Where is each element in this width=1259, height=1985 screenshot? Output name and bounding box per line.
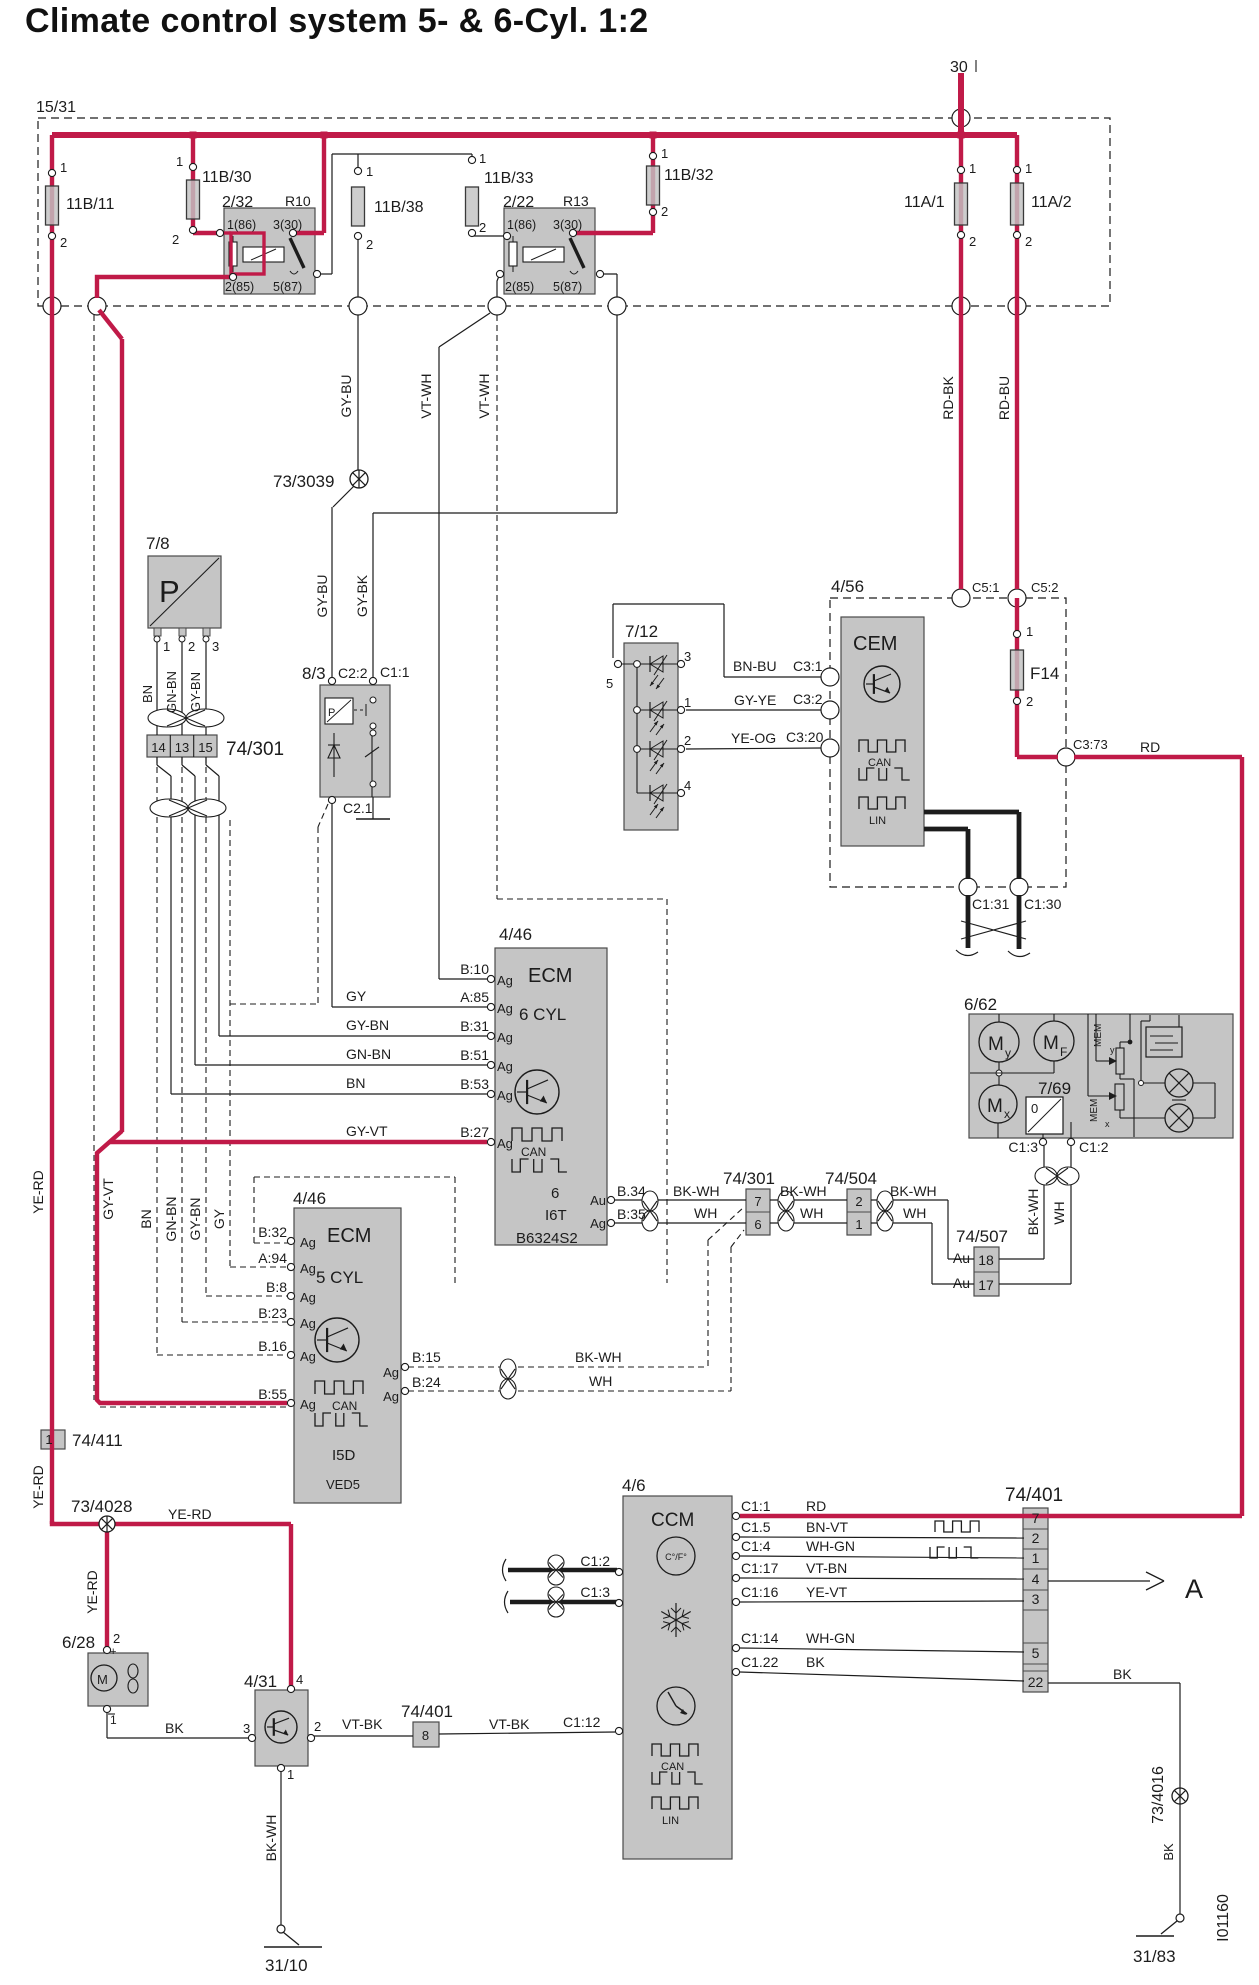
svg-text:6: 6: [551, 1185, 559, 1202]
svg-text:F14: F14: [1030, 664, 1059, 683]
svg-text:BK-WH: BK-WH: [780, 1183, 827, 1199]
svg-text:1: 1: [1026, 624, 1033, 639]
svg-text:15/31: 15/31: [36, 99, 76, 116]
svg-text:5(87): 5(87): [273, 280, 302, 294]
svg-text:1: 1: [479, 151, 486, 166]
svg-text:GN-BN: GN-BN: [163, 1196, 179, 1241]
svg-text:73/4028: 73/4028: [71, 1497, 132, 1516]
svg-text:RD: RD: [1140, 739, 1160, 755]
svg-text:8: 8: [422, 1728, 429, 1743]
svg-text:M: M: [988, 1034, 1004, 1055]
svg-text:YE-VT: YE-VT: [806, 1584, 848, 1600]
svg-text:C1.5: C1.5: [741, 1519, 771, 1535]
svg-text:4: 4: [296, 1672, 303, 1687]
svg-text:GY-BN: GY-BN: [346, 1017, 389, 1033]
svg-text:Ag: Ag: [497, 973, 513, 988]
svg-text:WH-GN: WH-GN: [806, 1630, 855, 1646]
svg-text:WH: WH: [589, 1373, 612, 1389]
svg-text:A: A: [1185, 1574, 1203, 1604]
svg-text:WH: WH: [800, 1205, 823, 1221]
svg-text:M: M: [1043, 1033, 1059, 1054]
svg-text:GY: GY: [211, 1208, 227, 1229]
svg-text:2/32: 2/32: [222, 194, 253, 211]
svg-text:B:23: B:23: [258, 1305, 287, 1321]
svg-text:1: 1: [1025, 161, 1032, 176]
svg-text:CCM: CCM: [651, 1510, 694, 1531]
svg-text:YE-RD: YE-RD: [84, 1570, 100, 1614]
svg-text:Ag: Ag: [497, 1088, 513, 1103]
svg-text:7/69: 7/69: [1038, 1079, 1071, 1098]
svg-text:VT-WH: VT-WH: [476, 373, 492, 418]
svg-text:Ag: Ag: [300, 1261, 316, 1276]
svg-text:M: M: [97, 1672, 108, 1687]
svg-text:C1.22: C1.22: [741, 1654, 779, 1670]
svg-text:GY: GY: [346, 988, 367, 1004]
svg-text:B:31: B:31: [460, 1018, 489, 1034]
svg-text:2: 2: [314, 1719, 321, 1734]
svg-text:BN-BU: BN-BU: [733, 658, 777, 674]
svg-text:7/12: 7/12: [625, 622, 658, 641]
svg-text:CAN: CAN: [521, 1145, 546, 1159]
svg-text:4/31: 4/31: [244, 1672, 277, 1691]
svg-text:VT-BK: VT-BK: [342, 1716, 383, 1732]
svg-text:C1:30: C1:30: [1024, 896, 1062, 912]
svg-text:BN-VT: BN-VT: [806, 1519, 848, 1535]
svg-text:BK: BK: [1161, 1843, 1176, 1861]
svg-text:2: 2: [661, 204, 668, 219]
svg-text:Au: Au: [953, 1275, 970, 1291]
svg-text:2: 2: [188, 639, 195, 654]
svg-text:BN: BN: [140, 685, 155, 703]
svg-text:1: 1: [1032, 1550, 1040, 1566]
svg-text:1: 1: [855, 1217, 862, 1232]
svg-text:CEM: CEM: [853, 633, 897, 655]
svg-text:14: 14: [151, 740, 165, 755]
svg-text:y: y: [1110, 1045, 1115, 1055]
svg-text:0: 0: [1031, 1101, 1038, 1116]
svg-text:1: 1: [661, 146, 668, 161]
svg-text:3(30): 3(30): [273, 218, 302, 232]
svg-text:GY-YE: GY-YE: [734, 692, 776, 708]
svg-text:Ag: Ag: [300, 1290, 316, 1305]
svg-text:Ag: Ag: [497, 1001, 513, 1016]
svg-text:C1:17: C1:17: [741, 1560, 779, 1576]
svg-text:WH-GN: WH-GN: [806, 1538, 855, 1554]
svg-text:5: 5: [606, 676, 613, 691]
svg-text:BK-WH: BK-WH: [890, 1183, 937, 1199]
svg-text:Ag: Ag: [590, 1216, 606, 1231]
svg-text:I6T: I6T: [545, 1207, 567, 1224]
svg-text:11B/32: 11B/32: [664, 167, 714, 184]
svg-text:1: 1: [110, 1713, 117, 1727]
svg-text:B6324S2: B6324S2: [516, 1230, 578, 1247]
svg-text:M: M: [987, 1096, 1003, 1117]
svg-text:Ag: Ag: [300, 1349, 316, 1364]
svg-text:8/3: 8/3: [302, 664, 326, 683]
svg-text:MEM: MEM: [1089, 1099, 1100, 1122]
svg-text:I01160: I01160: [1215, 1894, 1232, 1942]
svg-text:C1:3: C1:3: [1008, 1139, 1038, 1155]
svg-text:1: 1: [45, 1432, 52, 1447]
svg-text:B.34: B.34: [617, 1183, 646, 1199]
svg-text:C1:16: C1:16: [741, 1584, 779, 1600]
svg-text:LIN: LIN: [662, 1815, 679, 1827]
svg-text:Ag: Ag: [383, 1389, 399, 1404]
svg-text:BK: BK: [1113, 1666, 1132, 1682]
svg-text:4/6: 4/6: [622, 1476, 646, 1495]
svg-text:31/10: 31/10: [265, 1956, 308, 1975]
svg-text:11B/11: 11B/11: [66, 196, 114, 213]
svg-text:BN: BN: [346, 1075, 365, 1091]
svg-text:1: 1: [684, 695, 691, 710]
svg-text:VED5: VED5: [326, 1477, 360, 1492]
svg-text:B:27: B:27: [460, 1124, 489, 1140]
svg-text:2: 2: [172, 232, 179, 247]
svg-text:C3:2: C3:2: [793, 691, 823, 707]
svg-text:C1:14: C1:14: [741, 1630, 779, 1646]
svg-text:Climate control system 5- & 6-: Climate control system 5- & 6-Cyl. 1:2: [25, 2, 649, 40]
svg-text:1: 1: [287, 1767, 294, 1782]
svg-text:F: F: [1060, 1045, 1067, 1059]
svg-text:GN-BN: GN-BN: [164, 671, 179, 713]
svg-text:3(30): 3(30): [553, 218, 582, 232]
svg-text:C1:1: C1:1: [380, 664, 410, 680]
svg-text:2: 2: [684, 733, 691, 748]
svg-text:VT-BK: VT-BK: [489, 1716, 530, 1732]
svg-text:11A/1: 11A/1: [904, 194, 945, 211]
svg-text:RD: RD: [806, 1498, 826, 1514]
svg-text:74/507: 74/507: [956, 1227, 1008, 1246]
svg-text:30: 30: [950, 59, 968, 76]
svg-text:2: 2: [1032, 1530, 1040, 1546]
svg-text:2(85): 2(85): [225, 280, 254, 294]
svg-text:+: +: [110, 1646, 116, 1658]
svg-text:2: 2: [60, 235, 67, 250]
svg-text:74/301: 74/301: [723, 1169, 775, 1188]
svg-text:BN: BN: [138, 1209, 154, 1228]
svg-text:RD-BK: RD-BK: [940, 376, 956, 420]
svg-text:BK-WH: BK-WH: [1025, 1189, 1041, 1236]
svg-text:ECM: ECM: [528, 965, 572, 987]
svg-text:C1:4: C1:4: [741, 1538, 771, 1554]
svg-text:B:15: B:15: [412, 1349, 441, 1365]
svg-text:C3:73: C3:73: [1073, 737, 1108, 752]
svg-text:RD-BU: RD-BU: [996, 376, 1012, 420]
svg-text:R10: R10: [285, 193, 311, 209]
svg-text:LIN: LIN: [869, 815, 886, 827]
svg-text:YE-OG: YE-OG: [731, 730, 776, 746]
svg-text:Au: Au: [590, 1193, 606, 1208]
svg-text:2/22: 2/22: [503, 194, 534, 211]
svg-text:A:85: A:85: [460, 989, 489, 1005]
svg-text:A:94: A:94: [258, 1250, 287, 1266]
svg-text:4: 4: [684, 778, 691, 793]
svg-text:C°/F°: C°/F°: [665, 1552, 687, 1562]
svg-text:Au: Au: [953, 1250, 970, 1266]
svg-text:GY-BU: GY-BU: [314, 574, 330, 617]
svg-text:2: 2: [1025, 234, 1032, 249]
svg-text:BK: BK: [806, 1654, 825, 1670]
svg-text:7/8: 7/8: [146, 534, 170, 553]
svg-text:Ag: Ag: [497, 1059, 513, 1074]
svg-text:CAN: CAN: [661, 1761, 684, 1773]
svg-text:74/504: 74/504: [825, 1169, 877, 1188]
svg-text:6: 6: [754, 1217, 761, 1232]
svg-text:4/46: 4/46: [293, 1189, 326, 1208]
svg-text:6 CYL: 6 CYL: [519, 1005, 566, 1024]
svg-text:WH: WH: [903, 1205, 926, 1221]
svg-text:GY-BU: GY-BU: [338, 374, 354, 417]
svg-text:BK-WH: BK-WH: [575, 1349, 622, 1365]
svg-text:CAN: CAN: [332, 1399, 357, 1413]
svg-text:Ag: Ag: [300, 1316, 316, 1331]
svg-text:2: 2: [113, 1631, 120, 1646]
svg-text:GY-VT: GY-VT: [346, 1123, 388, 1139]
svg-text:C3:1: C3:1: [793, 658, 823, 674]
svg-text:VT-WH: VT-WH: [418, 373, 434, 418]
svg-text:C3:20: C3:20: [786, 729, 824, 745]
svg-text:C2.1: C2.1: [343, 800, 373, 816]
svg-text:4/56: 4/56: [831, 577, 864, 596]
svg-text:74/301: 74/301: [226, 739, 284, 760]
svg-text:B:51: B:51: [460, 1047, 489, 1063]
svg-text:15: 15: [198, 740, 212, 755]
svg-text:73/4016: 73/4016: [1150, 1766, 1167, 1824]
svg-text:74/411: 74/411: [72, 1431, 123, 1450]
svg-text:11B/30: 11B/30: [202, 169, 252, 186]
svg-text:3: 3: [684, 649, 691, 664]
svg-text:YE-RD: YE-RD: [30, 1465, 46, 1509]
svg-text:CAN: CAN: [868, 757, 891, 769]
svg-text:11B/33: 11B/33: [484, 170, 534, 187]
svg-text:6/62: 6/62: [964, 995, 997, 1014]
svg-text:73/3039: 73/3039: [273, 472, 334, 491]
svg-text:P: P: [159, 574, 180, 609]
svg-text:2: 2: [1026, 694, 1033, 709]
svg-text:BK-WH: BK-WH: [673, 1183, 720, 1199]
svg-text:C2:2: C2:2: [338, 665, 368, 681]
svg-text:GN-BN: GN-BN: [346, 1046, 391, 1062]
svg-text:2: 2: [479, 220, 486, 235]
svg-text:22: 22: [1028, 1674, 1044, 1690]
svg-text:B:53: B:53: [460, 1076, 489, 1092]
svg-text:WH: WH: [1051, 1201, 1067, 1224]
svg-text:MEM: MEM: [1093, 1024, 1104, 1047]
svg-text:Ag: Ag: [300, 1235, 316, 1250]
svg-text:Ag: Ag: [383, 1365, 399, 1380]
svg-text:Ag: Ag: [300, 1397, 316, 1412]
svg-text:VT-BN: VT-BN: [806, 1560, 847, 1576]
svg-text:4/46: 4/46: [499, 925, 532, 944]
svg-text:C5:2: C5:2: [1031, 580, 1058, 595]
svg-text:3: 3: [243, 1721, 250, 1736]
svg-text:x: x: [1105, 1119, 1110, 1129]
svg-text:C1:1: C1:1: [741, 1498, 771, 1514]
svg-text:3: 3: [1032, 1591, 1040, 1607]
svg-text:B:35: B:35: [617, 1206, 646, 1222]
svg-text:11A/2: 11A/2: [1031, 194, 1072, 211]
svg-text:5: 5: [1032, 1645, 1040, 1661]
svg-text:GY-BN: GY-BN: [187, 1197, 203, 1240]
svg-text:2(85): 2(85): [505, 280, 534, 294]
svg-text:BK-WH: BK-WH: [263, 1815, 279, 1862]
svg-text:2: 2: [969, 234, 976, 249]
svg-text:74/401: 74/401: [1005, 1485, 1063, 1506]
svg-text:1: 1: [366, 164, 373, 179]
svg-text:B:10: B:10: [460, 961, 489, 977]
svg-text:GY-VT: GY-VT: [100, 1178, 116, 1220]
svg-text:5 CYL: 5 CYL: [316, 1268, 363, 1287]
svg-text:C1:2: C1:2: [1079, 1139, 1109, 1155]
svg-text:WH: WH: [694, 1205, 717, 1221]
svg-text:2: 2: [855, 1194, 862, 1209]
svg-text:C1:3: C1:3: [580, 1584, 610, 1600]
svg-text:11B/38: 11B/38: [374, 199, 424, 216]
svg-text:C1:2: C1:2: [580, 1553, 610, 1569]
svg-text:GY-BK: GY-BK: [354, 574, 370, 617]
svg-text:Ag: Ag: [497, 1136, 513, 1151]
svg-text:C1:12: C1:12: [563, 1714, 601, 1730]
svg-text:13: 13: [175, 740, 189, 755]
svg-text:B:24: B:24: [412, 1374, 441, 1390]
svg-text:31/83: 31/83: [1133, 1947, 1176, 1966]
svg-text:y: y: [1005, 1046, 1011, 1060]
svg-text:B:32: B:32: [258, 1224, 287, 1240]
svg-text:17: 17: [978, 1277, 994, 1293]
svg-text:1: 1: [163, 639, 170, 654]
svg-text:7: 7: [1032, 1510, 1040, 1526]
svg-text:I5D: I5D: [332, 1447, 356, 1464]
svg-text:74/401: 74/401: [401, 1702, 453, 1721]
svg-text:1(86): 1(86): [507, 218, 536, 232]
svg-text:6/28: 6/28: [62, 1633, 95, 1652]
svg-text:R13: R13: [563, 193, 589, 209]
svg-text:GY-BN: GY-BN: [188, 672, 203, 712]
svg-text:18: 18: [978, 1252, 994, 1268]
svg-text:YE-RD: YE-RD: [168, 1506, 212, 1522]
svg-text:1: 1: [176, 154, 183, 169]
svg-text:C5:1: C5:1: [972, 580, 999, 595]
svg-text:2: 2: [366, 237, 373, 252]
svg-text:1: 1: [60, 160, 67, 175]
svg-text:BK: BK: [165, 1720, 184, 1736]
svg-text:x: x: [1004, 1107, 1010, 1121]
svg-text:4: 4: [1032, 1571, 1040, 1587]
svg-text:1(86): 1(86): [227, 218, 256, 232]
svg-text:B:8: B:8: [266, 1279, 287, 1295]
svg-text:1: 1: [969, 161, 976, 176]
svg-text:B.16: B.16: [258, 1338, 287, 1354]
svg-text:5(87): 5(87): [553, 280, 582, 294]
svg-text:B:55: B:55: [258, 1386, 287, 1402]
svg-text:3: 3: [212, 639, 219, 654]
svg-text:7: 7: [754, 1194, 761, 1209]
svg-text:ECM: ECM: [327, 1225, 371, 1247]
svg-text:Ag: Ag: [497, 1030, 513, 1045]
svg-text:YE-RD: YE-RD: [30, 1170, 46, 1214]
svg-text:C1:31: C1:31: [972, 896, 1010, 912]
